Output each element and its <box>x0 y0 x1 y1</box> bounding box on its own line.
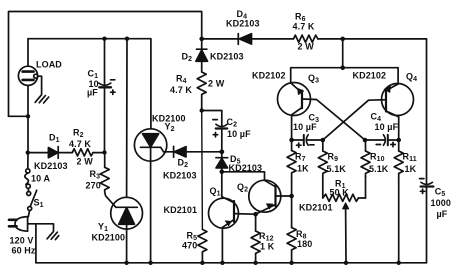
svg-text:R3: R3 <box>90 169 101 181</box>
transistor Q3 KD2102 <box>278 83 311 116</box>
svg-text:KD2103: KD2103 <box>34 161 68 171</box>
svg-text:D2: D2 <box>178 158 189 170</box>
svg-text:1 K: 1 K <box>260 242 275 252</box>
svg-text:270: 270 <box>86 181 101 191</box>
svg-text:KD2103: KD2103 <box>229 163 263 173</box>
resistor R9 5.1K <box>322 140 324 151</box>
resistor R12 1K <box>255 214 257 231</box>
resistor R6 4.7K 2W <box>294 35 318 42</box>
node junction lamp bottom <box>26 114 30 118</box>
node junction Q1 base / Q2 emitter / R12 <box>253 212 258 217</box>
node junction C1 top <box>102 37 106 41</box>
node junction R2/C1/R3 <box>102 150 106 154</box>
node junction R8 bottom <box>289 261 293 265</box>
svg-text:Q4: Q4 <box>406 72 417 84</box>
node junction D1 row <box>26 150 30 154</box>
svg-text:R10: R10 <box>370 152 385 164</box>
svg-text:C2: C2 <box>227 117 238 129</box>
svg-text:S1: S1 <box>34 198 44 210</box>
wire left bottom corner to lamp rail <box>9 115 29 117</box>
resistor R4 4.7K 2W <box>197 72 206 97</box>
plug 120V 60Hz <box>15 217 28 232</box>
svg-text:120 V: 120 V <box>10 236 34 246</box>
diode D2 (top) KD2103 <box>197 48 207 50</box>
svg-text:4.7 K: 4.7 K <box>293 22 315 32</box>
capacitor C2 10uF <box>216 124 227 126</box>
node junction R5 bottom <box>200 261 204 265</box>
wire lamp branch <box>27 39 29 66</box>
svg-text:KD2100: KD2100 <box>92 233 126 243</box>
node junction D5/Q1 collector <box>220 170 225 175</box>
svg-text:1K: 1K <box>297 164 309 174</box>
wire lamp rail to fuse <box>27 153 29 169</box>
resistor R2 4.7K 2W <box>72 149 93 156</box>
node junction D2/C2/D5 <box>219 149 224 154</box>
wire emitter rail <box>291 68 398 84</box>
svg-text:LOAD: LOAD <box>36 60 62 70</box>
wire plug to bottom rail <box>35 224 37 263</box>
potentiometer R1 50K <box>323 194 359 201</box>
svg-text:KD2101: KD2101 <box>164 205 198 215</box>
polarity C3 <box>297 143 301 147</box>
svg-text:KD2103: KD2103 <box>163 170 197 180</box>
svg-text:2 W: 2 W <box>208 79 225 89</box>
node junction Q3 collector / C3 / R7 <box>289 138 294 143</box>
node junction Y2 cathode bottom <box>148 261 152 265</box>
diode D1 KD2103 <box>30 152 48 154</box>
wire lamp side to ground <box>38 76 42 94</box>
svg-text:50 K: 50 K <box>330 188 350 198</box>
wire bottom rail <box>36 262 427 264</box>
diode D4 KD2103 <box>237 34 239 45</box>
svg-text:180: 180 <box>297 239 312 249</box>
node junction C4 left / R10 <box>363 138 368 143</box>
ground (lamp) <box>35 95 49 103</box>
svg-text:Y1: Y1 <box>98 222 108 234</box>
wire collector rail to Q2 <box>222 172 265 181</box>
svg-text:R7: R7 <box>295 152 306 164</box>
wire Y1 anode rail <box>126 39 128 198</box>
svg-text:KD2102: KD2102 <box>252 71 286 81</box>
SCR Y2 KD2100 <box>134 129 166 161</box>
svg-text:10 A: 10 A <box>31 174 50 184</box>
diode D2 (lower) KD2103 <box>164 151 174 153</box>
capacitor C5 1000uF <box>421 182 433 184</box>
transistor Q2 KD2101 <box>249 180 281 212</box>
fuse F1 10 A <box>26 169 30 173</box>
svg-text:R4: R4 <box>176 74 187 86</box>
capacitor C4 10uF <box>365 139 384 141</box>
svg-text:C5: C5 <box>435 187 446 199</box>
svg-text:470: 470 <box>182 241 197 251</box>
svg-text:5.1K: 5.1K <box>369 164 389 174</box>
svg-text:10 µF: 10 µF <box>293 122 317 132</box>
node junction R1 wiper bottom <box>344 261 348 265</box>
svg-text:4.7 K: 4.7 K <box>69 139 91 149</box>
node junction emitter rail <box>340 65 345 70</box>
svg-text:µF: µF <box>437 209 448 219</box>
wire plug output <box>28 224 54 232</box>
polarity C5 <box>420 178 424 180</box>
node junction Q1 emitter bottom <box>220 261 224 265</box>
SCR Y1 KD2100 <box>111 197 143 229</box>
svg-text:µF: µF <box>87 88 98 98</box>
node junction R6/flipflop feed <box>340 37 345 42</box>
node junction Q2 base / R7-R8 <box>289 194 294 199</box>
wire top outer <box>9 12 202 117</box>
svg-text:R9: R9 <box>328 152 339 164</box>
lamp LOAD <box>18 66 37 85</box>
svg-text:2 W: 2 W <box>77 157 94 167</box>
wire mid rail down to R5 <box>201 111 204 230</box>
polarity C2 <box>213 119 217 121</box>
wire fuse to switch <box>27 188 29 191</box>
wire R3 to Y1 gate <box>105 192 116 207</box>
svg-text:R2: R2 <box>73 128 84 140</box>
svg-text:KD2101: KD2101 <box>299 203 333 213</box>
ground (plug) <box>47 232 59 240</box>
polarity C1 <box>111 79 115 81</box>
svg-text:Q2: Q2 <box>237 182 248 194</box>
wire flipflop supply drop <box>342 39 344 68</box>
svg-text:1K: 1K <box>405 164 417 174</box>
svg-text:KD2103: KD2103 <box>226 19 260 29</box>
switch S1 <box>27 192 31 196</box>
svg-text:Q1: Q1 <box>210 186 221 198</box>
svg-text:10 µF: 10 µF <box>227 129 251 139</box>
resistor R8 180 <box>291 196 293 228</box>
svg-text:2 W: 2 W <box>298 42 315 52</box>
svg-text:R11: R11 <box>403 152 417 164</box>
wire C1 rail upper <box>104 39 106 85</box>
svg-text:60 Hz: 60 Hz <box>12 246 36 256</box>
node junction top mid <box>199 37 204 42</box>
wire lamp bottom <box>27 85 29 152</box>
wire Y2 gate <box>161 147 164 152</box>
resistor R3 270 <box>104 153 106 168</box>
diode D5 KD2103 <box>221 152 223 158</box>
node junction C3 right / R9 <box>321 138 326 143</box>
wire upper rail left segment <box>28 39 151 129</box>
svg-text:Q3: Q3 <box>308 73 319 85</box>
svg-text:KD2103: KD2103 <box>210 52 244 62</box>
capacitor C3 10uF <box>292 139 304 141</box>
polarity C4 <box>376 144 380 146</box>
node junction R4/C2 <box>200 108 204 112</box>
resistor R10 5.1K <box>365 140 367 151</box>
transistor Q4 KD2102 <box>382 84 414 116</box>
node junction Y1 cathode bottom <box>124 261 128 265</box>
transistor Q1 KD2101 <box>209 198 239 228</box>
svg-text:4.7 K: 4.7 K <box>170 85 192 95</box>
capacitor C1 10uF <box>99 83 111 85</box>
svg-text:D1: D1 <box>49 132 60 144</box>
wire D4 row <box>202 38 239 40</box>
wire right rail <box>426 39 428 263</box>
svg-text:KD2102: KD2102 <box>353 71 387 81</box>
svg-text:D2: D2 <box>182 52 193 64</box>
svg-text:10 µF: 10 µF <box>375 122 399 132</box>
wire switch to plug <box>28 211 29 217</box>
wire C2 branch <box>202 111 222 127</box>
resistor R11 1K <box>398 140 400 151</box>
node junction Y1 top <box>125 37 129 41</box>
svg-text:5.1K: 5.1K <box>327 164 347 174</box>
wiper R1 <box>345 207 347 263</box>
svg-text:1000: 1000 <box>431 198 451 208</box>
resistor R5 470 <box>198 229 207 262</box>
node junction R11 bottom <box>397 261 401 265</box>
node junction R12 bottom <box>253 261 257 265</box>
node junction Q4 collector / C4 / R11 <box>396 138 401 143</box>
resistor R7 1K <box>291 140 293 151</box>
